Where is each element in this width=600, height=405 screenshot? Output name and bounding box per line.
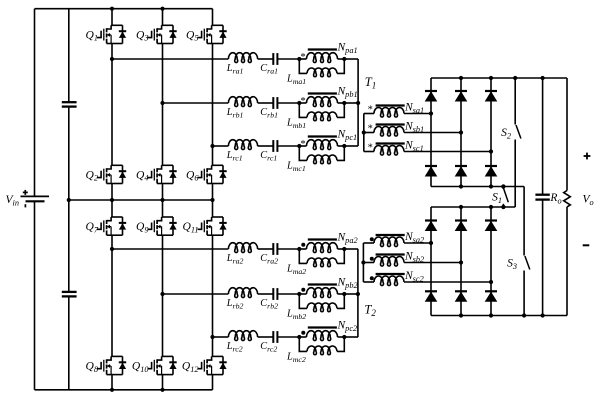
junction dot on rectifier 2 top rail bbox=[459, 205, 463, 209]
diode rectifier2 top leg1 bbox=[425, 221, 438, 232]
junction dot Npc1 right bbox=[342, 144, 346, 148]
junction dot on rectifier 1 bottom rail bbox=[459, 184, 463, 188]
junction dot leg 1 on mid bus bbox=[110, 198, 114, 202]
wire phase ra2 from leg to Lr bbox=[112, 248, 228, 250]
diode rectifier1 top leg3 bbox=[485, 91, 498, 102]
junction dot Npb1 right bbox=[342, 101, 346, 105]
transistor Q1 bbox=[86, 25, 127, 43]
wire output negative rail bbox=[431, 315, 567, 317]
diode rectifier1 bottom leg2 bbox=[455, 166, 468, 177]
winding Npa2 (transformer primary) bbox=[299, 232, 357, 253]
wire Npc2 to star bus bbox=[344, 336, 358, 338]
transistor Q12 bbox=[182, 356, 227, 374]
inductor Lmc1 (magnetizing) bbox=[286, 146, 344, 173]
label Vo bbox=[583, 194, 594, 207]
capacitor Crb2 bbox=[260, 288, 278, 310]
diode rectifier1 top leg2 bbox=[455, 91, 468, 102]
junction dot on output negative rail bbox=[489, 313, 493, 317]
junction dot phase rc2 tap bbox=[210, 335, 214, 339]
resistor Ro bbox=[549, 191, 570, 207]
junction dot T1 star bus bbox=[356, 101, 360, 105]
svg-text:*: * bbox=[300, 52, 305, 63]
junction dot on rectifier 1 bottom rail bbox=[489, 184, 493, 188]
transistor Q10 bbox=[132, 356, 177, 374]
wire inverter leg 2 segments bbox=[162, 9, 164, 390]
junction dot Nsc2 to rectifier leg bbox=[489, 280, 493, 284]
transistor Q5 bbox=[186, 25, 227, 43]
wire rectifier 2 legs bbox=[431, 207, 491, 316]
wire output positive rail bbox=[431, 77, 567, 79]
wire Ro branch lower bbox=[566, 207, 568, 316]
switch S2 bbox=[501, 78, 521, 207]
junction dot secondary star bus 1 bbox=[362, 130, 366, 134]
wire phase rb2 Lr to Cr bbox=[258, 293, 274, 295]
junction dot Npa1 left bbox=[297, 57, 301, 61]
wire left rail upper (Vin+ to top bus) bbox=[34, 9, 36, 197]
junction dot leg 1 on top bus bbox=[110, 7, 114, 11]
junction dot leg 2 on bottom bus bbox=[160, 388, 164, 392]
diode rectifier2 bottom leg1 bbox=[425, 291, 438, 302]
transistor Q9 bbox=[136, 217, 177, 235]
junction dot phase rb1 tap bbox=[160, 101, 164, 105]
diode rectifier1 top leg1 bbox=[425, 91, 438, 102]
inductor Lmc2 (magnetizing) bbox=[286, 337, 344, 364]
wire phase rc1 from leg to Lr bbox=[213, 145, 229, 147]
inductor Lrc2 bbox=[226, 331, 258, 354]
transistor Q8 bbox=[86, 356, 127, 374]
junction dot on output negative rail bbox=[459, 313, 463, 317]
winding Nsa2 (transformer secondary) bbox=[363, 231, 431, 247]
wire phase ra1 Lr to Cr bbox=[258, 58, 274, 60]
wire T1 primary star bus bbox=[357, 59, 359, 146]
transistor Q6 bbox=[186, 165, 227, 183]
wire dc-link capacitor branch lower bbox=[68, 296, 70, 389]
diode rectifier1 bottom leg3 bbox=[485, 166, 498, 177]
svg-text:*: * bbox=[368, 124, 373, 135]
label output minus bbox=[583, 244, 590, 246]
wire output capacitor branch lower bbox=[542, 200, 544, 316]
diode rectifier2 bottom leg3 bbox=[485, 291, 498, 302]
wire inverter leg 3 segments bbox=[212, 9, 214, 390]
svg-text:*: * bbox=[368, 143, 373, 154]
junction dot on output positive rail bbox=[459, 76, 463, 80]
label output plus bbox=[584, 153, 591, 160]
junction dot on output negative rail bbox=[522, 313, 526, 317]
junction dot on output positive rail bbox=[541, 76, 545, 80]
junction dot Nsa1 to rectifier leg bbox=[429, 111, 433, 115]
junction dot Nsb2 to rectifier leg bbox=[459, 260, 463, 264]
wire secondary star bus 2 bbox=[362, 243, 364, 282]
transistor Q2 bbox=[86, 165, 127, 183]
diode rectifier2 bottom leg2 bbox=[455, 291, 468, 302]
transistor Q3 bbox=[136, 25, 177, 43]
junction dot cap midpoint on mid bus bbox=[67, 198, 71, 202]
switch S3 bbox=[507, 187, 530, 316]
wire rectifier 1 legs bbox=[431, 78, 491, 187]
junction dot Npb2 left bbox=[297, 292, 301, 296]
inductor Lra2 bbox=[226, 243, 258, 266]
battery Vin bbox=[6, 190, 50, 208]
capacitor Crc1 bbox=[260, 140, 277, 162]
wire phase rc1 Cr to transformer bbox=[277, 145, 299, 147]
label T1 bbox=[365, 75, 376, 91]
diode rectifier2 top leg3 bbox=[485, 221, 498, 232]
wire rectifier 1 bottom rail bbox=[431, 186, 524, 188]
inductor Lrb2 bbox=[226, 288, 258, 311]
wire phase ra1 Cr to transformer bbox=[277, 58, 299, 60]
wire Npa2 to star bus bbox=[344, 248, 358, 250]
wire Npb1 to star bus bbox=[344, 102, 358, 104]
wire mid DC bus (capacitor midpoint) bbox=[69, 199, 213, 201]
wire phase rb1 Lr to Cr bbox=[258, 102, 274, 104]
wire left rail lower (Vin- to bottom bus) bbox=[34, 201, 36, 389]
switch S1 bbox=[492, 184, 508, 209]
wire output capacitor branch upper bbox=[542, 78, 544, 195]
junction dot T2 star bus bbox=[356, 292, 360, 296]
winding Npc1 (transformer primary) bbox=[299, 129, 357, 150]
junction dot Npc2 left bbox=[297, 335, 301, 339]
wire phase ra2 Lr to Cr bbox=[258, 248, 274, 250]
wire phase rb1 Cr to transformer bbox=[277, 102, 299, 104]
junction dot Npb1 left bbox=[297, 101, 301, 105]
junction dot phase rc1 tap bbox=[210, 144, 214, 148]
svg-text:*: * bbox=[300, 96, 305, 107]
junction dot phase ra2 tap bbox=[110, 247, 114, 251]
wire phase rc1 Lr to Cr bbox=[258, 145, 274, 147]
junction dot leg 3 on mid bus bbox=[210, 198, 214, 202]
winding Npc2 (transformer primary) bbox=[299, 320, 357, 341]
wire dc-link capacitor branch upper bbox=[68, 9, 70, 103]
winding Nsb2 (transformer secondary) bbox=[363, 251, 461, 267]
junction dot Npa1 right bbox=[342, 57, 346, 61]
svg-text:*: * bbox=[300, 139, 305, 150]
junction dot Nsc1 to rectifier leg bbox=[489, 149, 493, 153]
inductor Lma1 (magnetizing) bbox=[286, 59, 344, 86]
transistor Q11 bbox=[183, 217, 227, 235]
junction dot on rectifier 2 top rail bbox=[489, 205, 493, 209]
inductor Lrb1 bbox=[226, 97, 258, 120]
wire Ro branch upper bbox=[566, 78, 568, 191]
junction dot on output positive rail bbox=[489, 76, 493, 80]
wire phase rc2 from leg to Lr bbox=[213, 336, 229, 338]
transistor Q4 bbox=[136, 165, 177, 183]
wire phase rb1 from leg to Lr bbox=[163, 102, 229, 104]
junction dot on output negative rail bbox=[541, 313, 545, 317]
junction dot leg 1 on bottom bus bbox=[110, 388, 114, 392]
junction dot Npc2 right bbox=[342, 335, 346, 339]
capacitor Cdc1 bbox=[62, 102, 77, 106]
inductor Lma2 (magnetizing) bbox=[286, 249, 344, 276]
capacitor Cra1 bbox=[260, 53, 278, 75]
wire phase rc2 Cr to transformer bbox=[277, 336, 299, 338]
capacitor Co (output filter) bbox=[535, 195, 549, 200]
wire rectifier 2 top rail bbox=[431, 206, 515, 208]
inductor Lra1 bbox=[226, 53, 258, 76]
capacitor Cdc2 bbox=[62, 292, 77, 297]
wire phase rc2 Lr to Cr bbox=[258, 336, 274, 338]
junction dot Npa2 left bbox=[297, 247, 301, 251]
wire inverter leg 1 segments bbox=[111, 9, 113, 390]
inductor Lmb2 (magnetizing) bbox=[286, 294, 344, 321]
junction dot phase rb2 tap bbox=[160, 292, 164, 296]
winding Npb1 (transformer primary) bbox=[299, 86, 357, 107]
diode rectifier1 bottom leg1 bbox=[425, 166, 438, 177]
wire phase ra1 from leg to Lr bbox=[112, 58, 228, 60]
junction dot on rectifier 1 bottom rail bbox=[501, 184, 505, 188]
winding Nsc1 (transformer secondary) bbox=[364, 140, 491, 156]
wire phase rb2 from leg to Lr bbox=[163, 293, 229, 295]
wire Npb2 to star bus bbox=[344, 293, 358, 295]
junction dot Nsa2 to rectifier leg bbox=[429, 241, 433, 245]
capacitor Crc2 bbox=[260, 331, 277, 353]
wire Npc1 to star bus bbox=[344, 145, 358, 147]
capacitor Crb1 bbox=[260, 97, 278, 119]
winding Nsb1 (transformer secondary) bbox=[364, 121, 461, 137]
junction dot leg 2 on mid bus bbox=[160, 198, 164, 202]
winding Npa1 (transformer primary) bbox=[299, 42, 357, 63]
junction dot Npb2 right bbox=[342, 292, 346, 296]
junction dot leg 2 on top bus bbox=[160, 7, 164, 11]
junction dot Npa2 right bbox=[342, 247, 346, 251]
junction dot Npc1 left bbox=[297, 144, 301, 148]
wire bottom DC bus bbox=[35, 389, 213, 391]
capacitor Cra2 bbox=[260, 243, 278, 265]
wire T2 primary star bus bbox=[357, 249, 359, 337]
junction dot Nsb1 to rectifier leg bbox=[459, 130, 463, 134]
wire top DC bus bbox=[35, 8, 213, 10]
inductor Lrc1 bbox=[226, 140, 258, 163]
diode rectifier2 top leg2 bbox=[455, 221, 468, 232]
winding Npb2 (transformer primary) bbox=[299, 277, 357, 298]
svg-text:*: * bbox=[368, 105, 373, 116]
junction dot on output positive rail bbox=[513, 76, 517, 80]
label T2 bbox=[364, 303, 376, 319]
junction dot secondary star bus 2 bbox=[361, 260, 365, 264]
wire dc-link capacitor branch middle bbox=[68, 107, 70, 292]
transistor Q7 bbox=[86, 217, 127, 235]
wire phase rb2 Cr to transformer bbox=[277, 293, 299, 295]
winding Nsc2 (transformer secondary) bbox=[363, 270, 491, 286]
junction dot on rectifier 2 top rail bbox=[501, 205, 505, 209]
inductor Lmb1 (magnetizing) bbox=[286, 103, 344, 130]
wire secondary star bus 1 bbox=[363, 114, 365, 152]
wire Npa1 to star bus bbox=[344, 58, 358, 60]
junction dot phase ra1 tap bbox=[110, 57, 114, 61]
wire phase ra2 Cr to transformer bbox=[277, 248, 299, 250]
winding Nsa1 (transformer secondary) bbox=[364, 102, 431, 118]
